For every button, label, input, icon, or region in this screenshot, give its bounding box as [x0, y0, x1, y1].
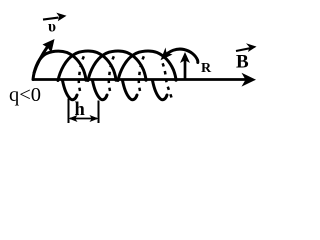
svg-text:q<0: q<0: [9, 84, 41, 106]
helix turn 4 top arc (solid): [118, 51, 176, 80]
helix turn 2 bottom hook (solid): [93, 81, 108, 100]
axis arrowhead (B direction): [242, 73, 257, 87]
helix turn 1 bottom hook (solid): [63, 81, 78, 100]
helix turn 3 bottom hook (solid): [123, 81, 138, 100]
R radius arrow: [184, 60, 187, 79]
helix turn 4 back riser (dashed): [163, 63, 172, 98]
helix turn 3 back riser (dashed): [139, 56, 144, 91]
wire axis line: [33, 78, 248, 81]
helix turn 3 top arc (solid): [88, 51, 146, 80]
h pitch marker: right vertical: [98, 101, 100, 124]
h pitch marker: left vertical: [68, 99, 70, 124]
helix turn 5 direction arrowhead: [161, 48, 173, 61]
B vector overbar arrow: [236, 48, 251, 51]
svg-text:υ: υ: [48, 19, 56, 36]
velocity arrow shaft: [34, 46, 48, 73]
helix turn 5 partial top arc (solid): [164, 49, 198, 62]
helix turn 1 back riser (dashed): [79, 56, 84, 91]
helix turn 1 top arc (solid): [33, 51, 86, 80]
svg-text:R: R: [201, 61, 212, 76]
helix turn 4 bottom hook (solid): [153, 81, 168, 100]
helix turn 2 back riser (dashed): [109, 56, 114, 91]
h double arrow: [70, 118, 97, 120]
helix turn 2 top arc (solid): [58, 51, 116, 80]
upsilon vector overbar arrow: [43, 18, 59, 20]
svg-text:h: h: [75, 100, 86, 120]
svg-text:B: B: [236, 52, 249, 73]
velocity arrowhead: [43, 39, 55, 53]
